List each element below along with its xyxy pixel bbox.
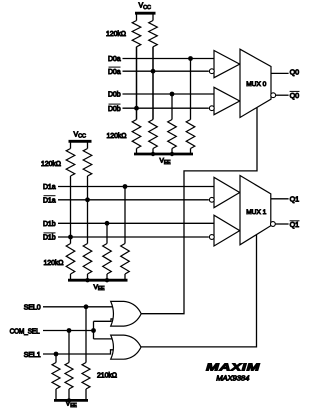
- svg-text:MUX 0: MUX 0: [246, 81, 266, 88]
- svg-text:MAX9384: MAX9384: [216, 374, 249, 383]
- svg-text:SEL0: SEL0: [24, 305, 41, 312]
- svg-text:D0a: D0a: [108, 56, 121, 63]
- svg-text:MAXIM: MAXIM: [206, 362, 260, 374]
- svg-text:VEE: VEE: [66, 401, 78, 409]
- svg-text:120kΩ: 120kΩ: [41, 161, 61, 168]
- svg-text:D0b: D0b: [108, 106, 121, 113]
- svg-text:120kΩ: 120kΩ: [107, 133, 127, 140]
- svg-text:VEE: VEE: [94, 284, 106, 292]
- svg-text:Q0: Q0: [290, 91, 299, 100]
- svg-text:COM_SEL: COM_SEL: [10, 328, 40, 335]
- svg-text:VCC: VCC: [139, 2, 151, 10]
- svg-text:D0b: D0b: [108, 92, 121, 99]
- svg-text:Q1: Q1: [290, 195, 299, 204]
- svg-text:120kΩ: 120kΩ: [44, 260, 64, 267]
- svg-text:210kΩ: 210kΩ: [97, 372, 117, 379]
- svg-text:SEL1: SEL1: [24, 352, 41, 359]
- svg-text:D1b: D1b: [43, 235, 56, 242]
- svg-text:VCC: VCC: [74, 131, 86, 139]
- svg-text:D1a: D1a: [43, 184, 56, 191]
- svg-text:Q0: Q0: [290, 68, 299, 77]
- svg-text:120kΩ: 120kΩ: [106, 31, 126, 38]
- svg-text:Q1: Q1: [290, 220, 299, 229]
- svg-text:D1b: D1b: [43, 221, 56, 228]
- svg-text:VEE: VEE: [160, 158, 172, 166]
- svg-text:D0a: D0a: [108, 69, 121, 76]
- svg-text:MUX 1: MUX 1: [246, 209, 266, 216]
- svg-text:D1a: D1a: [43, 197, 56, 204]
